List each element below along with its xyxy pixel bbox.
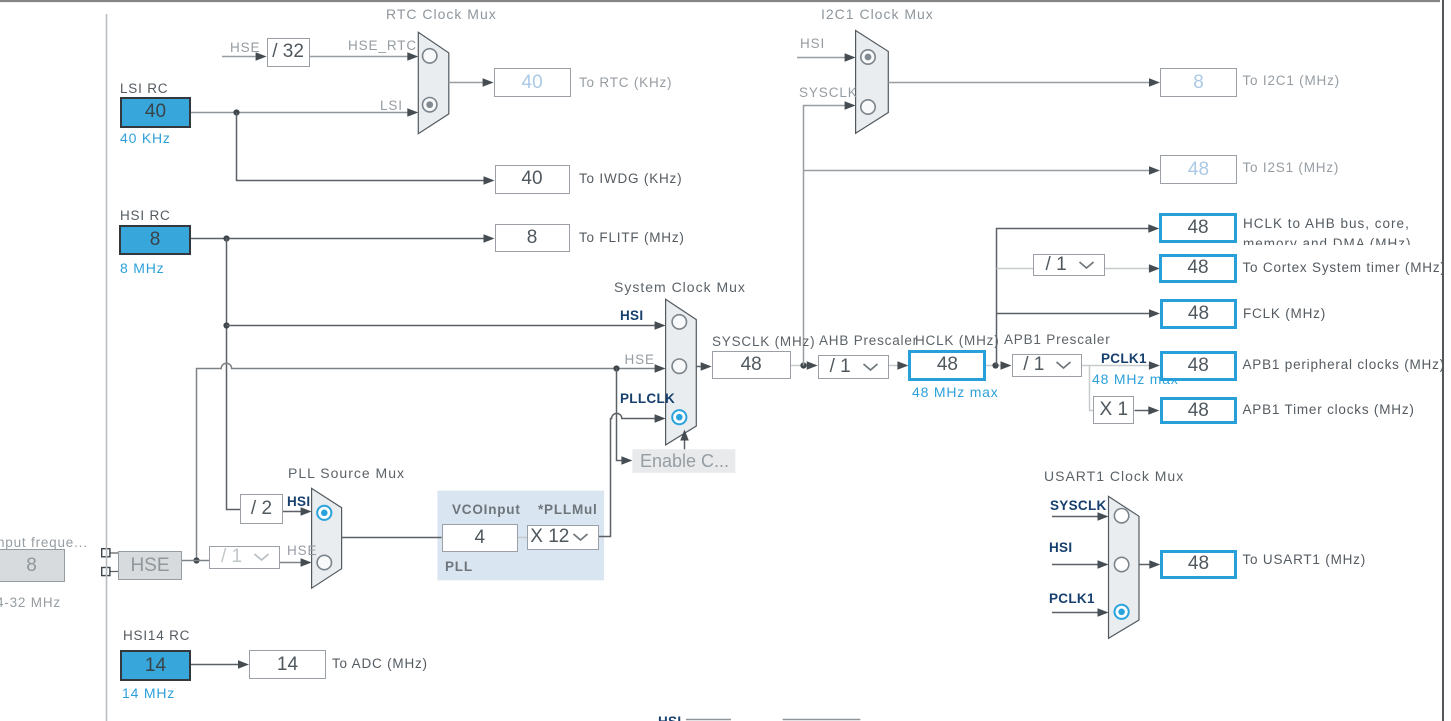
mux System Clock Mux body [666,299,697,445]
wire LSI from LSI RC to RTC mux [191,108,418,117]
frame left guide line [106,14,108,721]
label To I2C1 (MHz) [1243,74,1340,89]
label To FLITF (MHz) [579,231,685,246]
label SYSCLK at I2C1 mux [799,86,858,101]
label 40 KHz [120,131,171,146]
label HSI RC [120,209,171,224]
value box VCOInput 4 [442,524,518,552]
Enable CSS button background [632,449,735,473]
radio USART1 mux SYSCLK unselected [1114,509,1128,523]
label Enable CSS [640,452,729,472]
wire SYSCLK riser up to I2C1 mux [804,101,856,365]
label 14 MHz [122,686,175,701]
multiplier X1 box [1093,396,1134,424]
label HSE at PLL mux [287,544,317,559]
label To USART1 (MHz) [1243,553,1367,568]
source box LSI RC 40 [120,97,191,128]
wire SYSCLK stub to USART1 mux [1052,512,1109,521]
node junction HSI riser to System Mux [223,322,229,328]
wire System Clock Mux output to SYSCLK box [696,362,711,371]
label 8 MHz [120,261,164,276]
wire HSI stub to USART1 mux [1052,560,1109,569]
wire HSI from HSI RC to To FLITF [191,234,495,243]
label LSI RC [120,82,168,97]
radio RTC mux LSI selected [423,98,437,112]
wire SYSCLK branch to To I2S1 [804,166,1161,175]
wire PCLK1 branch down to X1 [1090,366,1094,411]
wire HCLK riser up to AHB bus box [997,224,1160,365]
source box HSI14 RC 14 [120,650,191,681]
wire HSI riser down to PLL /2 with hop over HSE wire [227,239,241,510]
wire VCOInput to PLLMul [518,537,527,539]
label To I2S1 (MHz) [1243,161,1340,176]
wire HCLK branch to FCLK [997,309,1161,318]
output box To I2S1 48 [1160,155,1237,184]
label RTC Clock Mux title [386,7,497,22]
mux RTC Clock Mux body [418,32,449,133]
wire HSE box to /1 predivider [182,560,209,562]
label HSI partial at bottom [658,715,681,721]
wire AHB Prescaler to HCLK box [889,361,909,370]
label HSE (top) [230,41,260,56]
wire bottom partial box edge 2 [783,719,861,721]
output box To IWDG 40 [495,165,570,194]
label HSI at PLL mux [287,495,310,510]
label To RTC (KHz) [579,76,672,91]
HSE port square pin 2 [102,568,110,576]
wire PCLK1 stub to USART1 mux [1052,608,1109,617]
radio USART1 mux PCLK1 selected blue [1115,605,1129,619]
radio I2C1 mux HSI selected [861,50,875,64]
wire Enable CSS drop with hop over PLLCLK wire [617,369,633,465]
wire HSI14 to To ADC box [191,660,249,669]
radio System mux HSI unselected [672,315,686,329]
label HCLK to AHB bus, core, memory and DMA (MHz) [1243,214,1412,245]
HSE source box [118,551,182,580]
wire HSE to /32 divider [222,52,267,61]
label PLL [445,560,473,575]
wire HCLK box output [986,361,1012,370]
label To ADC (MHz) [332,657,428,672]
radio I2C1 mux SYSCLK unselected [861,100,875,114]
radio PLL mux HSE unselected [317,555,331,569]
label HSE_RTC [348,39,417,54]
wire I2C1 mux output to To I2C1 box [888,78,1160,87]
output box APB1 peripheral 48 [1160,351,1237,381]
label HSI at System mux [620,309,643,324]
label I2C1 Clock Mux title [821,7,934,22]
wire X1 to APB1 timer box [1135,406,1160,415]
label PLLCLK at System mux [620,392,675,407]
input frequency box 8 [0,549,65,582]
label PCLK1 at USART1 mux [1049,592,1095,607]
radio USART1 mux HSI unselected [1114,557,1128,571]
label LSI [380,99,403,114]
dropdown APB1 Prescaler /1 [1012,354,1083,377]
label 48 MHz max under PCLK1 [1092,372,1179,387]
label APB1 Timer clocks (MHz) [1243,403,1415,418]
wire HSE riser up to System Clock Mux [197,363,666,560]
dropdown HSE predivider /1 disabled [209,546,280,570]
value box HCLK 48 [908,350,986,381]
radio PLL mux HSI selected blue [317,506,331,520]
value box SYSCLK 48 [712,351,791,379]
PLL block background panel [437,491,604,581]
node junction SYSCLK [800,362,806,368]
mux PLL Source Mux body [312,488,342,588]
wire USART1 mux output to To USART1 box [1139,560,1160,569]
wire /1 predivider to PLL Source Mux HSE input [280,558,312,567]
radio System mux PLLCLK selected blue [672,410,686,424]
label To Cortex System timer (MHz) [1243,261,1446,276]
HSE port stub wires [110,553,118,572]
wire PLLCLK from PLLMul up to System Clock Mux [599,413,666,536]
radio RTC mux HSE_RTC unselected [423,49,437,63]
wire /2 to PLL Source Mux HSI input [283,507,312,516]
output box To ADC 14 [249,650,326,679]
label To IWDG (KHz) [579,172,682,187]
wire HSI to System Clock Mux [227,321,666,330]
label SYSCLK (MHz) [712,335,815,350]
label 48 MHz max under HCLK [912,385,999,400]
node junction on LSI wire [233,109,239,115]
label HSI14 RC [123,629,190,644]
source box HSI RC 8 [119,225,191,255]
label HSE at System mux [625,353,655,368]
label HSI at USART1 mux [1049,541,1072,556]
output box FCLK 48 [1160,299,1237,329]
label 4-32 MHz [0,596,61,611]
output box To RTC 40 [494,68,571,97]
output box To FLITF 8 [495,224,570,252]
wire RTC mux output to To RTC box [449,78,494,87]
frame top border [0,0,1440,2]
wire /32 to RTC mux (HSE_RTC) [310,52,419,61]
wire APB1 Prescaler to APB1 peripheral box (PCLK1) [1082,361,1160,370]
wire bottom partial box edge 1 [686,719,731,721]
wire HSI stub to I2C1 mux [797,53,856,62]
node junction HCLK [992,362,998,368]
label HCLK (MHz) [915,334,1000,349]
node junction on HSI wire [223,235,229,241]
label USART1 Clock Mux title [1044,469,1184,484]
radio System mux HSE unselected [672,359,686,373]
wire HCLK branch to Cortex prescaler [997,264,1160,273]
label System Clock Mux title [614,280,746,295]
output box HCLK to AHB 48 [1159,213,1237,243]
wire LSI branch down to IWDG [237,113,495,185]
mux USART1 Clock Mux body [1109,496,1140,638]
label PLL Source Mux title [288,466,405,481]
label SYSCLK at USART1 mux [1050,499,1107,514]
label VCOInput [452,503,521,518]
dropdown Cortex prescaler /1 [1033,254,1104,276]
label APB1 peripheral clocks (MHz) [1243,358,1445,373]
label APB1 Prescaler [1004,333,1111,348]
wire SYSCLK box to AHB Prescaler [791,361,818,370]
output box APB1 timer 48 [1160,397,1237,425]
frame right panel edge [1442,0,1451,721]
node junction at HSE output [193,557,199,563]
node junction HSE wire to Enable CSS [613,365,619,371]
dropdown AHB Prescaler /1 [818,355,889,379]
dropdown PLLMul X12 [527,525,599,550]
output box To Cortex 48 [1159,254,1236,283]
label HSI at I2C1 mux [800,37,825,52]
output box To USART1 48 [1160,550,1236,579]
label AHB Prescaler [819,334,918,349]
HSE port square pin 1 [102,549,110,557]
output box To I2C1 8 [1160,68,1237,97]
label FCLK (MHz) [1243,307,1326,322]
mux I2C1 Clock Mux body [856,31,889,134]
wire PLL Source Mux output to VCOInput [342,537,442,539]
label *PLLMul [538,503,598,518]
divider /32 box [267,38,310,67]
wire Enable CSS up-arrow into mux [680,430,689,450]
divider /2 box [240,494,282,525]
label input frequency (clipped) [0,536,88,551]
label PCLK1 [1101,352,1147,367]
